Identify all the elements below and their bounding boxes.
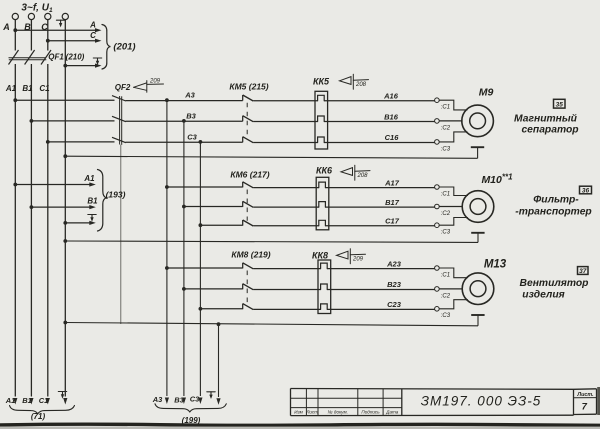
svg-text:В1: В1: [87, 197, 98, 206]
thermal relay КК6 body: [316, 177, 329, 230]
wire tap В vertical: [183, 121, 185, 396]
motor М10: [462, 191, 494, 223]
circuit breaker QF2 mechanical link: [119, 96, 121, 145]
wire С17 from tap to KM: [200, 224, 242, 226]
svg-text::С3: :С3: [441, 313, 451, 319]
wire pole 3 КМ5 to KK: [253, 142, 317, 144]
wire В3 from QF2 to KM5: [126, 120, 243, 122]
chassis ground of motor М9: [471, 146, 484, 148]
motor terminal circle :С3 row2: [435, 223, 440, 228]
wire pole 1 КМ5 to KK: [253, 100, 317, 102]
thermal relay КК5 body: [315, 91, 328, 149]
motor terminal circle :С1 row1: [435, 98, 440, 103]
title block column lines: [305, 389, 307, 416]
bottom border line: [0, 424, 600, 425]
wire С23 to motor terminal: [327, 308, 434, 310]
svg-text:3~f, U1: 3~f, U1: [21, 3, 53, 15]
svg-text:Подпись: Подпись: [361, 410, 380, 415]
wire tap PE vertical: [218, 324, 220, 397]
svg-text:А17: А17: [384, 178, 400, 187]
wire terminal to motor row3 pole 1: [439, 268, 467, 278]
svg-text:В3: В3: [186, 111, 196, 120]
contactor КМ6 contact pole 1: [242, 182, 244, 188]
thermal relay КК5 heater 3: [318, 137, 325, 143]
wire pole 2 КМ5 to KK: [253, 121, 317, 123]
wire C to (201): [48, 40, 98, 42]
wire PE to (201): [65, 65, 98, 67]
contactor КМ5 link (dashed): [246, 103, 248, 138]
svg-text:КМ8 (219): КМ8 (219): [231, 250, 270, 260]
wire В3 from bus to QF2: [31, 120, 114, 122]
wire В23 from tap to KM: [184, 288, 243, 290]
svg-text:37: 37: [579, 268, 587, 275]
title block row lines: [291, 397, 402, 399]
earth symbol bottom middle: [207, 392, 215, 399]
wire terminal to motor row1 pole 2: [439, 120, 462, 122]
terminal X4: [62, 13, 68, 19]
svg-text:С: С: [90, 31, 96, 40]
svg-text:В16: В16: [384, 112, 399, 121]
wire A1 to (193): [15, 184, 92, 186]
tag box 36: [580, 186, 592, 194]
motor terminal circle :С3 row3: [435, 307, 440, 312]
svg-text:КМ6 (217): КМ6 (217): [230, 170, 269, 180]
svg-text:QF1: QF1: [48, 53, 64, 62]
svg-text:Вентилятор: Вентилятор: [520, 278, 589, 289]
wire terminal to motor row3 pole 3: [439, 300, 467, 309]
brace (193): [98, 170, 107, 232]
wire terminal to motor row1 pole 3: [439, 132, 467, 142]
title block frame: [291, 389, 574, 416]
wire pole 2 КМ8 to KK: [253, 289, 320, 291]
svg-text:7: 7: [582, 402, 588, 413]
svg-text:С16: С16: [385, 133, 400, 142]
wire terminal to motor row2 pole 3: [439, 218, 467, 226]
wire terminal to motor row1 pole 1: [439, 100, 467, 110]
motor terminal circle :С3 row1: [435, 140, 440, 145]
contactor КМ5 contact pole 2: [242, 116, 244, 122]
svg-text:А3: А3: [152, 395, 163, 404]
contactor КМ8 contact pole 1: [242, 263, 244, 269]
wire В17 from tap to KM: [184, 206, 243, 208]
svg-text:208: 208: [355, 82, 367, 88]
wire PE to (193): [65, 222, 92, 224]
svg-text:С23: С23: [387, 300, 402, 309]
terminal X2: [28, 13, 34, 19]
svg-text:сепаратор: сепаратор: [521, 125, 578, 136]
brace (199): [155, 404, 226, 412]
wire link continuation (faint): [120, 145, 122, 325]
svg-text:QF2: QF2: [115, 83, 131, 92]
motor terminal circle :С2 row1: [435, 119, 440, 124]
circuit breaker QF2 pole 1 blade: [112, 96, 126, 101]
svg-text:С3: С3: [187, 132, 197, 141]
wire А3 from QF2 to KM5: [126, 100, 243, 102]
svg-text:(201): (201): [113, 42, 135, 53]
svg-text::С1: :С1: [441, 272, 450, 278]
svg-text:КК5: КК5: [313, 77, 330, 87]
wire ground bus row3: [65, 323, 478, 326]
sheet reference arrow 208 at КК6: [341, 165, 370, 180]
earth symbol at terminal 4: [56, 20, 64, 27]
wire A to (201): [15, 29, 98, 31]
svg-text:208: 208: [356, 173, 368, 179]
contactor КМ8 link (dashed): [246, 271, 248, 305]
svg-text:В1: В1: [22, 84, 33, 93]
svg-text:35: 35: [556, 101, 564, 108]
right edge smudge: [597, 387, 600, 415]
wire С17 to motor terminal: [325, 225, 434, 227]
svg-text:А16: А16: [383, 92, 399, 101]
contactor КМ5 contact pole 3: [242, 137, 244, 143]
svg-text::С1: :С1: [441, 105, 450, 111]
svg-text:Магнитный: Магнитный: [514, 114, 578, 125]
contactor КМ8 contact pole 2: [242, 284, 244, 290]
thermal relay КК6 heater 1: [319, 182, 326, 188]
motor terminal circle :С1 row2: [435, 185, 440, 190]
sheet reference arrow 208 at КК5: [340, 74, 369, 89]
chassis ground of motor М13: [471, 314, 484, 316]
svg-text::С2: :С2: [441, 211, 451, 217]
wire terminal to motor row2 pole 2: [439, 206, 463, 208]
wire ground bus row2: [65, 241, 478, 242]
wire А16 to motor terminal: [324, 100, 434, 102]
wire В16 to motor terminal: [324, 121, 434, 123]
thermal relay КК6 heater 3: [319, 220, 326, 226]
sheet reference arrow 209 at QF2: [134, 81, 164, 93]
svg-text::С3: :С3: [441, 230, 451, 236]
wire pole 3 КМ8 to KK: [253, 308, 320, 310]
thermal relay КК5 heater 2: [318, 116, 325, 122]
wire bus PE vertical: [64, 20, 66, 397]
contactor КМ6 link (dashed): [246, 190, 248, 221]
wire С16 to motor terminal: [324, 142, 434, 144]
circuit breaker QF1 pole 3 blade: [41, 50, 51, 65]
svg-text:(193): (193): [106, 190, 126, 200]
motor М13: [462, 273, 494, 305]
svg-text::С3: :С3: [441, 146, 451, 152]
svg-text::С2: :С2: [441, 125, 451, 131]
thermal relay КК5 heater 1: [318, 95, 325, 101]
tag box 37: [578, 267, 589, 275]
svg-text:А23: А23: [386, 259, 402, 268]
svg-text:С1: С1: [39, 396, 49, 405]
motor terminal circle :С2 row2: [435, 204, 440, 209]
svg-text:А1: А1: [83, 174, 95, 183]
svg-text::С1: :С1: [441, 191, 450, 197]
circuit breaker QF2 pole 3 blade: [112, 137, 126, 142]
brace (201): [102, 25, 110, 70]
svg-text:В1: В1: [22, 396, 32, 405]
circuit breaker QF2 pole 2 blade: [112, 116, 126, 121]
svg-text:(210): (210): [66, 53, 85, 62]
svg-text:М9: М9: [479, 87, 494, 99]
svg-text:36: 36: [582, 188, 590, 195]
tag box 35: [554, 99, 566, 108]
svg-text:А: А: [2, 22, 10, 32]
svg-text:С3: С3: [190, 395, 200, 404]
circuit breaker QF1 mechanical link: [9, 57, 47, 59]
motor terminal circle :С1 row3: [435, 266, 440, 271]
wire bus В vertical: [30, 20, 32, 51]
svg-text:КК8: КК8: [312, 251, 328, 261]
svg-text:209: 209: [352, 257, 364, 263]
thermal relay КК8 heater 3: [321, 304, 328, 310]
motor terminal circle :С2 row3: [435, 287, 440, 292]
wire В17 to motor terminal: [325, 206, 434, 208]
svg-text:ЗМ197. 000 ЭЗ-5: ЗМ197. 000 ЭЗ-5: [421, 393, 542, 408]
wire С23 from tap to KM: [200, 308, 242, 310]
wire А17 from tap to KM: [167, 186, 243, 188]
svg-text:(71): (71): [31, 412, 46, 421]
svg-text:В17: В17: [385, 198, 400, 207]
svg-text:А3: А3: [184, 91, 195, 100]
svg-text:Лист.: Лист.: [576, 392, 594, 398]
wire pole 1 КМ8 to KK: [253, 268, 320, 270]
chassis ground of motor М10: [471, 232, 484, 234]
wire pole 1 КМ6 to KK: [253, 187, 319, 189]
thermal relay КК8 heater 2: [321, 284, 328, 290]
thermal relay КК6 heater 2: [319, 202, 326, 208]
svg-text:А: А: [89, 21, 96, 30]
earth symbol bottom left: [58, 392, 66, 399]
wire С3 from bus to QF2: [48, 141, 115, 143]
wire А17 to motor terminal: [325, 187, 434, 189]
wire А23 from tap to KM: [167, 267, 243, 269]
wire tap А vertical: [166, 100, 168, 396]
svg-text:Дата: Дата: [385, 410, 399, 415]
wire pole 2 КМ6 to KK: [253, 206, 319, 208]
wire С3 from QF2 to KM5: [126, 141, 243, 143]
circuit breaker QF1 pole 1 blade: [9, 50, 19, 65]
thermal relay КК8 heater 1: [321, 263, 328, 269]
thermal relay КК8 body: [318, 260, 331, 314]
wire terminal to motor row3 pole 2: [439, 288, 463, 290]
svg-text:изделия: изделия: [522, 290, 564, 301]
svg-text:В3: В3: [174, 396, 184, 405]
wire terminal to motor row2 pole 1: [439, 187, 467, 196]
wire А3 from bus to QF2: [15, 99, 114, 101]
svg-text:209: 209: [149, 78, 161, 84]
svg-text:-транспортер: -транспортер: [515, 207, 591, 218]
svg-text:А1: А1: [5, 84, 17, 93]
wire ground bus row1: [65, 156, 477, 158]
brace (71): [10, 406, 75, 414]
svg-text:В23: В23: [387, 280, 402, 289]
svg-text::С2: :С2: [441, 293, 451, 299]
contactor КМ6 contact pole 2: [242, 201, 244, 207]
svg-text:Лист: Лист: [305, 410, 318, 415]
wire tap С vertical: [199, 142, 201, 396]
circuit breaker QF1 pole 2 blade: [25, 50, 35, 65]
svg-text:КК6: КК6: [316, 166, 333, 176]
contactor КМ8 contact pole 3: [242, 304, 244, 310]
svg-text:С1: С1: [39, 84, 50, 93]
contactor КМ6 contact pole 3: [242, 220, 244, 226]
earth symbol on (201) line: [93, 58, 101, 65]
wire В23 to motor terminal: [327, 289, 434, 291]
svg-text:С17: С17: [385, 217, 400, 226]
svg-text:Изм: Изм: [294, 410, 303, 415]
earth symbol on (193) line: [88, 215, 96, 222]
wire pole 3 КМ6 to KK: [253, 225, 319, 227]
svg-text:М10**1: М10**1: [481, 173, 513, 187]
motor М9: [462, 105, 494, 137]
wire bus А vertical: [14, 20, 16, 51]
wire А23 to motor terminal: [327, 268, 434, 270]
svg-text:А1: А1: [5, 396, 16, 405]
svg-text:№ докум.: № докум.: [328, 410, 348, 415]
wire B1 to (193): [31, 206, 92, 208]
sheet cell: [574, 389, 597, 415]
terminal X1: [12, 13, 18, 19]
svg-text:КМ5 (215): КМ5 (215): [229, 82, 268, 92]
svg-text:М13: М13: [484, 259, 507, 271]
svg-text:Фильтр-: Фильтр-: [533, 195, 579, 206]
sheet reference arrow 209 at КК8: [337, 249, 366, 264]
terminal X3: [45, 13, 51, 19]
contactor КМ5 contact pole 1: [242, 95, 244, 101]
wire bus С vertical: [47, 20, 49, 51]
